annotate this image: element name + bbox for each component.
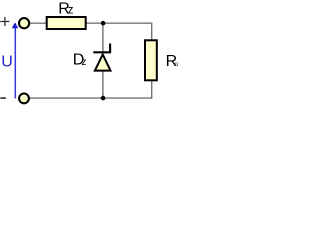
svg-text:U: U [1, 54, 13, 71]
minus terminal label [0, 97, 6, 99]
terminal + (top left) [19, 18, 29, 28]
wire diode branch upper [102, 23, 104, 53]
svg-text:z: z [81, 57, 86, 68]
wire diode branch lower [102, 71, 104, 98]
wire right vertical upper [151, 23, 153, 41]
svg-text:z: z [68, 5, 74, 17]
plus terminal label [0, 17, 9, 26]
svg-text:o: o [175, 61, 179, 68]
resistor R1 (Rz) [47, 17, 86, 29]
voltage arrow U [12, 22, 19, 98]
wire top: Rz to right corner [86, 22, 152, 24]
zener diode D1 (Dz) [93, 44, 110, 71]
node A (top junction) [101, 21, 106, 26]
node B (bottom junction) [101, 96, 106, 101]
terminal - (bottom left) [19, 94, 29, 104]
wire bottom: terminal to right corner [30, 97, 153, 99]
resistor R2 (Ro) [145, 40, 157, 80]
wire right vertical lower [151, 81, 153, 99]
wire top: terminal to Rz [30, 22, 47, 24]
